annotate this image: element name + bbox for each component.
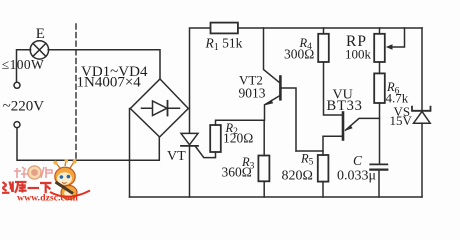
svg-text:120Ω: 120Ω — [223, 130, 253, 145]
wire C to bottom bus — [378, 170, 380, 197]
watermark decorative stamp — [14, 166, 52, 179]
wire R2 top to emitter node — [216, 120, 265, 125]
zener diode VS — [412, 107, 431, 111]
wire RP to R6 — [379, 62, 381, 73]
watermark mascot — [50, 159, 90, 200]
wire bus to R4 — [323, 28, 325, 34]
terminal lower — [14, 122, 20, 128]
VT gate wire — [196, 147, 216, 158]
transistor VT2 base wire — [281, 88, 296, 151]
wire R4 to UJT B2 — [324, 62, 343, 115]
terminal upper — [14, 82, 20, 88]
resistor R6 — [374, 73, 385, 103]
wire R6 to capacitor C — [379, 103, 381, 164]
resistor R1 — [211, 23, 238, 34]
svg-text:E: E — [36, 26, 45, 42]
svg-text:VT: VT — [167, 149, 186, 164]
resistor R5 — [318, 155, 329, 182]
UJT B1 wire — [323, 136, 342, 151]
svg-text:1N4007×4: 1N4007×4 — [77, 74, 142, 90]
resistor R2 — [210, 125, 221, 152]
svg-text:0.033μ: 0.033μ — [337, 168, 376, 183]
bottom bus wire — [130, 196, 423, 198]
transistor VT2 collector — [264, 28, 281, 83]
svg-text:C: C — [353, 153, 363, 168]
wire bridge left vertex to bottom bus — [129, 109, 131, 198]
UJT emitter wire — [346, 118, 380, 130]
wire bus right to zener — [421, 28, 423, 111]
transistor VT2 emitter — [265, 96, 281, 121]
wire lower terminal to bridge bottom vertex — [17, 128, 159, 161]
svg-text:360Ω: 360Ω — [222, 164, 252, 179]
svg-text:≤100W: ≤100W — [2, 57, 44, 72]
lamp E — [30, 41, 48, 59]
bridge rectifier VD1~VD4 — [130, 79, 188, 137]
svg-text:820Ω: 820Ω — [282, 168, 313, 183]
wire top bus — [190, 28, 211, 133]
node B1 wire to R5 — [296, 151, 323, 155]
RP wiper arrow — [391, 28, 405, 47]
wire lamp to left terminal — [17, 50, 31, 82]
wire node to R3 — [263, 120, 265, 155]
svg-text:R1 51k: R1 51k — [205, 36, 243, 54]
svg-text:~220V: ~220V — [3, 99, 45, 115]
resistor R4 — [318, 34, 329, 62]
svg-text:www.dzsc.com: www.dzsc.com — [17, 192, 78, 202]
svg-text:300Ω: 300Ω — [284, 47, 314, 62]
svg-text:9013: 9013 — [239, 85, 266, 100]
thyristor VT — [181, 133, 198, 144]
resistor R3 — [258, 156, 269, 182]
svg-text:BT33: BT33 — [327, 98, 363, 114]
svg-text:15V: 15V — [390, 113, 413, 128]
dashed separation line — [75, 24, 77, 161]
potentiometer RP — [374, 34, 385, 62]
capacitor C — [370, 163, 387, 165]
transistor VT2 base bar — [279, 77, 282, 100]
watermark text 维库一下 — [2, 182, 52, 194]
svg-text:R5: R5 — [300, 151, 314, 167]
wire bus to RP — [379, 28, 381, 34]
wire R5 to bottom bus — [322, 182, 324, 197]
svg-text:100k: 100k — [345, 47, 372, 62]
bridge inner diode — [142, 107, 180, 109]
wire lamp to bridge top vertex — [48, 50, 160, 79]
wire R3 to bottom bus — [263, 181, 265, 197]
UJT VU bar — [342, 113, 345, 140]
